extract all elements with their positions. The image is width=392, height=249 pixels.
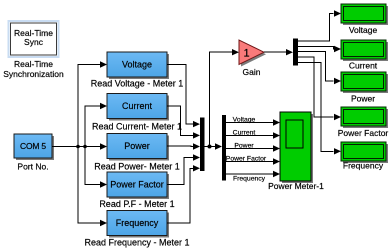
svg-text:Read Power- Meter 1: Read Power- Meter 1 bbox=[94, 162, 180, 172]
svg-text:Power: Power bbox=[351, 94, 375, 104]
wire branch to Current block bbox=[85, 106, 101, 147]
wire Frequency to mux bbox=[167, 168, 194, 223]
Current display block bbox=[341, 40, 388, 61]
svg-text:Current: Current bbox=[349, 61, 378, 71]
Power Factor display block bbox=[341, 107, 388, 128]
Read Current block bbox=[107, 94, 169, 121]
wire bar2 to meter port 3 bbox=[226, 148, 274, 150]
demux bar3 bbox=[293, 39, 298, 66]
svg-text:Read Frequency - Meter 1: Read Frequency - Meter 1 bbox=[84, 238, 189, 248]
wire mux output to demux bar2 bbox=[205, 146, 216, 148]
wire Power to mux bbox=[167, 145, 194, 148]
wire demux3 to Voltage display bbox=[298, 14, 334, 42]
svg-text:Power Factor: Power Factor bbox=[338, 128, 389, 138]
Read Frequency block bbox=[107, 211, 169, 238]
wire junction up to Gain bbox=[210, 52, 233, 146]
svg-text:Power Factor: Power Factor bbox=[110, 180, 164, 190]
mux bar1 bbox=[200, 118, 205, 172]
wire demux3 to Power Factor display bbox=[298, 57, 334, 117]
svg-text:Read P.F - Meter 1: Read P.F - Meter 1 bbox=[99, 199, 174, 209]
node junction dot C bbox=[208, 145, 212, 149]
wire demux3 to Current display bbox=[298, 46, 334, 49]
svg-text:COM 5: COM 5 bbox=[20, 141, 46, 151]
wire bar2 to meter port 5 bbox=[226, 173, 274, 175]
svg-text:Frequency: Frequency bbox=[233, 176, 266, 183]
wire branch to Frequency block bbox=[78, 147, 101, 224]
Power Meter-1 scope block bbox=[280, 112, 313, 183]
arrow into Power block bbox=[100, 143, 107, 149]
wire Voltage to mux bbox=[167, 65, 194, 125]
svg-text:Real-Time: Real-Time bbox=[14, 59, 53, 69]
wire demux3 to Frequency display bbox=[298, 62, 334, 151]
wire bar2 to meter port 2 bbox=[226, 135, 274, 137]
Read Power Factor block bbox=[107, 172, 169, 199]
COM5 port block bbox=[14, 134, 54, 160]
Real-Time Sync block U1 bbox=[9, 21, 59, 57]
svg-text:1: 1 bbox=[243, 47, 249, 59]
wire bar2 to meter port 1 bbox=[226, 122, 274, 124]
svg-text:Power: Power bbox=[124, 141, 150, 151]
node junction dot A bbox=[76, 145, 80, 149]
svg-text:Gain: Gain bbox=[243, 67, 261, 77]
svg-text:Power Factor: Power Factor bbox=[226, 156, 267, 163]
label Real-Time Synchronization bbox=[3, 59, 64, 79]
svg-text:Voltage: Voltage bbox=[233, 117, 256, 124]
svg-text:Sync: Sync bbox=[24, 37, 44, 47]
demux bar2 bbox=[222, 115, 226, 181]
gain block G1 bbox=[239, 40, 266, 67]
Power display block bbox=[341, 72, 388, 93]
node junction dot B bbox=[83, 145, 87, 149]
Voltage display block bbox=[341, 4, 388, 25]
svg-text:Current: Current bbox=[233, 130, 256, 137]
wire branch to Power Factor block bbox=[85, 147, 101, 185]
svg-text:Voltage: Voltage bbox=[122, 60, 152, 70]
svg-text:Read Voltage - Meter 1: Read Voltage - Meter 1 bbox=[91, 79, 184, 89]
Read Power block bbox=[107, 134, 169, 161]
wire branch to Voltage block bbox=[78, 65, 101, 147]
wire Current to mux bbox=[167, 106, 194, 135]
svg-text:Read Current- Meter 1: Read Current- Meter 1 bbox=[92, 122, 182, 132]
svg-text:Synchronization: Synchronization bbox=[3, 69, 64, 79]
Read Voltage block bbox=[107, 52, 169, 79]
wire demux3 to Power display bbox=[298, 52, 334, 81]
wire COM5 output main bbox=[52, 146, 101, 148]
svg-text:Frequency: Frequency bbox=[116, 218, 159, 228]
wire Power Factor to mux bbox=[167, 158, 194, 185]
wire Gain output to demux bar3 bbox=[264, 51, 286, 53]
wire bar2 to meter port 4 bbox=[226, 161, 274, 163]
svg-text:Power Meter-1: Power Meter-1 bbox=[268, 181, 324, 191]
Frequency display block bbox=[341, 142, 388, 163]
svg-text:Frequency: Frequency bbox=[343, 161, 384, 171]
svg-text:Current: Current bbox=[122, 101, 153, 111]
svg-text:Voltage: Voltage bbox=[349, 25, 378, 35]
svg-text:Power: Power bbox=[234, 143, 254, 150]
svg-text:Port No.: Port No. bbox=[17, 162, 48, 172]
